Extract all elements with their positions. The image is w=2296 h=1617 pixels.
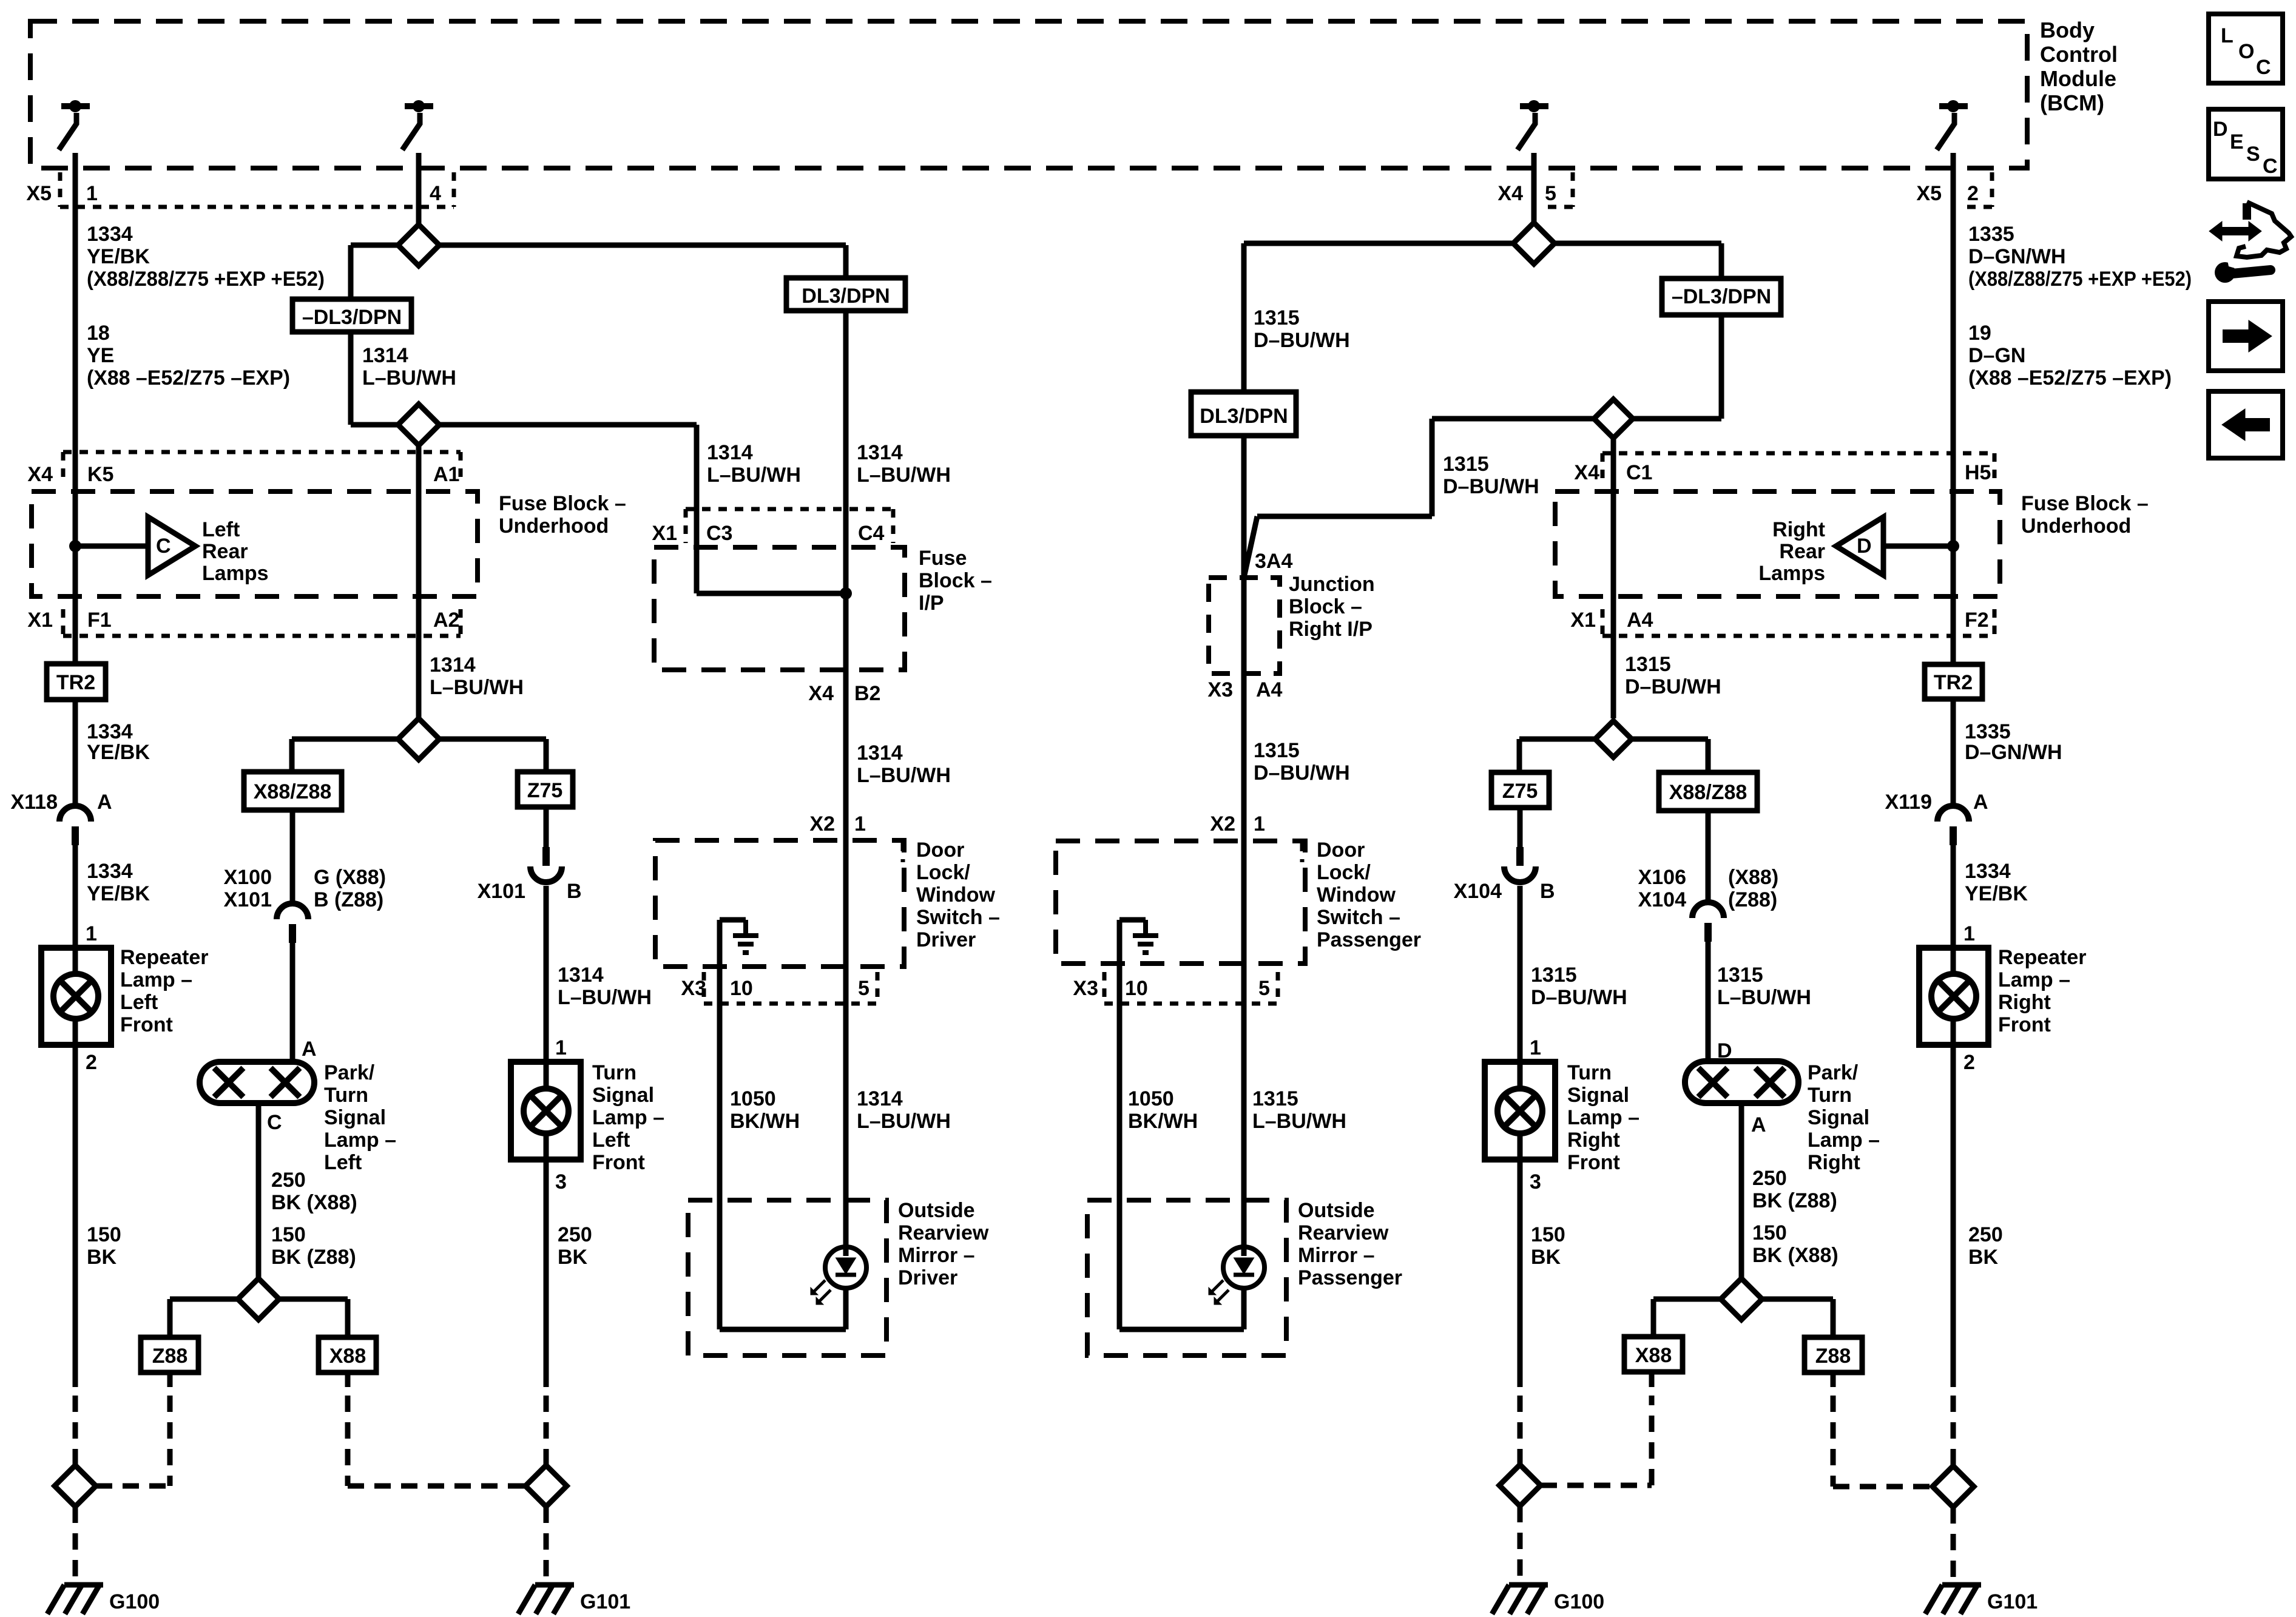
wire 250 BK from park/turn right — [1739, 1103, 1744, 1278]
svg-text:Body: Body — [2040, 18, 2095, 42]
svg-text:1050: 1050 — [1128, 1087, 1174, 1110]
pin 1 label — [86, 182, 98, 205]
svg-text:1315: 1315 — [1254, 306, 1300, 329]
svg-text:1335: 1335 — [1965, 720, 2011, 743]
splice diamond turn lamp right ground — [1499, 1465, 1541, 1506]
svg-text:D–BU/WH: D–BU/WH — [1254, 761, 1350, 785]
svg-text:A: A — [302, 1038, 317, 1061]
svg-text:Mirror –: Mirror – — [1298, 1244, 1375, 1267]
pin B label — [567, 880, 582, 903]
fuse block right connector X1 bracket (pins A4,F2) — [1602, 609, 1994, 636]
label X1 left fuse block — [27, 609, 53, 632]
svg-text:Outside: Outside — [1298, 1199, 1375, 1222]
wire label 1334 YE/BK (X88/Z88/Z75 +EXP +E52) — [87, 223, 325, 291]
svg-text:X106: X106 — [1638, 866, 1686, 889]
triangle letter D — [1857, 535, 1872, 558]
svg-text:Rear: Rear — [1779, 540, 1825, 563]
Outside Rearview Mirror - Driver label — [898, 1199, 989, 1289]
pin 1 label turn lamp right — [1530, 1036, 1541, 1059]
Right Rear Lamps label — [1758, 518, 1825, 585]
svg-text:D–BU/WH: D–BU/WH — [1625, 675, 1721, 698]
ground G100 right — [1492, 1585, 1548, 1614]
svg-text:Z75: Z75 — [527, 779, 563, 802]
wire label 1334 YE/BK below TR2 — [87, 720, 150, 764]
wire label 1315 L-BU/WH passenger mirror — [1252, 1087, 1346, 1133]
wire from X88/Z88 takeout to connector X100/X101 — [290, 810, 295, 903]
svg-text:Door: Door — [916, 839, 964, 862]
svg-text:B (Z88): B (Z88) — [314, 888, 383, 911]
svg-text:Z75: Z75 — [1502, 780, 1538, 803]
svg-text:X4: X4 — [808, 682, 834, 705]
svg-text:G100: G100 — [109, 1590, 160, 1613]
Fuse Block - Underhood left dashed box — [32, 491, 478, 596]
legend previous page arrow box — [2209, 391, 2283, 458]
dashed ground wire turn lamp left — [544, 1396, 549, 1465]
svg-text:Lock/: Lock/ — [1317, 861, 1371, 884]
svg-text:250: 250 — [1968, 1223, 2003, 1246]
label X5 — [26, 182, 52, 205]
wire 1315 to Park/Turn lamp right pin D — [1706, 941, 1711, 1061]
svg-text:G101: G101 — [1987, 1590, 2038, 1613]
wire 1314 from lower diamond to fuse block I/P pin C3 — [439, 425, 697, 593]
svg-text:D–GN/WH: D–GN/WH — [1968, 245, 2066, 268]
svg-text:X4: X4 — [27, 463, 53, 486]
label G (X88) B (Z88) — [314, 866, 386, 911]
svg-text:1314: 1314 — [558, 964, 604, 987]
Fuse Block - I/P label — [919, 547, 992, 615]
svg-text:X101: X101 — [224, 888, 272, 911]
svg-text:A4: A4 — [1256, 678, 1283, 701]
wire 1314 down from fuse block I/P pin B2 — [843, 593, 849, 840]
connector X3 bracket passenger — [1104, 972, 1278, 1004]
switch internal wire to ground passenger — [1119, 920, 1146, 964]
pin 5 label — [1545, 182, 1556, 205]
svg-text:H5: H5 — [1965, 461, 1991, 484]
svg-text:Lamp –: Lamp – — [324, 1129, 396, 1152]
svg-text:–DL3/DPN: –DL3/DPN — [302, 306, 402, 329]
wire 1334 YE/BK from BCM X5-1 — [73, 153, 78, 664]
svg-text:E: E — [2230, 130, 2244, 154]
svg-text:Repeater: Repeater — [1998, 946, 2087, 969]
svg-text:Front: Front — [120, 1013, 173, 1036]
turn signal LED indicator passenger mirror — [1209, 1247, 1264, 1305]
wire label 1314 L-BU/WH driver mirror — [857, 1087, 951, 1133]
pin 1 label repeater left — [86, 922, 97, 945]
wire label 1314 L-BU/WH on C3 branch — [707, 441, 801, 487]
Park/Turn Signal Lamp - Left (dual filament) — [200, 1062, 314, 1103]
option box DL3/DPN right-center — [1191, 392, 1296, 436]
label X106 X104 — [1638, 866, 1686, 911]
svg-text:F1: F1 — [87, 609, 112, 632]
svg-text:Repeater: Repeater — [120, 946, 209, 969]
internal ground symbol driver switch — [733, 920, 758, 953]
wire label 1314 L-BU/WH on C4 branch — [857, 441, 951, 487]
svg-text:C: C — [2263, 155, 2278, 178]
wire 250 BK below turn lamp left — [544, 1160, 549, 1387]
svg-text:(X88 –E52/Z75 –EXP): (X88 –E52/Z75 –EXP) — [1968, 366, 2172, 390]
label X5 right — [1916, 182, 1942, 205]
svg-text:L–BU/WH: L–BU/WH — [857, 764, 951, 787]
svg-text:Turn: Turn — [1808, 1084, 1852, 1107]
dashed wire below splice to G100 — [73, 1507, 78, 1578]
svg-text:X3: X3 — [1073, 977, 1098, 1000]
svg-text:1315: 1315 — [1252, 1087, 1298, 1110]
pin 4 label — [430, 182, 441, 205]
pin A1 label — [433, 463, 459, 486]
svg-text:X88/Z88: X88/Z88 — [254, 780, 332, 803]
svg-text:C4: C4 — [858, 522, 885, 545]
dashed wire to G101 left — [544, 1507, 549, 1578]
svg-text:–DL3/DPN: –DL3/DPN — [1672, 285, 1771, 308]
label X4 right fuse block — [1574, 461, 1599, 484]
wire from lower diamond to junction block jog — [1244, 419, 1594, 578]
svg-text:X1: X1 — [652, 522, 677, 545]
pin A label X119 — [1973, 791, 1988, 814]
wire label 18 YE (X88 -E52/Z75 -EXP) — [87, 322, 290, 390]
wire 1314 to Park/Turn lamp left pin A — [290, 943, 295, 1062]
svg-text:Block –: Block – — [1289, 595, 1362, 618]
splice diamond turn lamp left ground — [525, 1465, 567, 1507]
pin A label park/turn right — [1751, 1113, 1766, 1136]
wire 1315 from BCM X4-5 — [1531, 153, 1537, 223]
svg-text:2: 2 — [1963, 1051, 1975, 1074]
pin F1 label — [87, 609, 112, 632]
wire label 1315 L-BU/WH park/turn right — [1717, 964, 1811, 1009]
dashed wire Z88 right to repeater ground splice — [1833, 1372, 1933, 1487]
splice diamond 1314 to harness takeouts left — [398, 718, 439, 760]
wire 1050 BK/WH passenger — [1117, 964, 1123, 1200]
harness takeout X88/Z88 right — [1659, 772, 1757, 811]
mirror passenger internal wires — [1119, 1200, 1244, 1329]
connector X2 bracket driver — [901, 843, 905, 862]
harness takeout X88 left — [319, 1337, 376, 1372]
wire label 1050 BK/WH driver — [730, 1087, 800, 1133]
svg-text:1334: 1334 — [87, 223, 133, 246]
label G100 left — [109, 1590, 160, 1613]
svg-text:A4: A4 — [1627, 609, 1653, 632]
svg-text:Window: Window — [1317, 883, 1396, 906]
svg-text:BK/WH: BK/WH — [730, 1110, 800, 1133]
svg-text:Right: Right — [1567, 1129, 1620, 1152]
label X4 under fuse block I/P — [808, 682, 834, 705]
wire to X88/Z88 takeout right — [1632, 739, 1708, 772]
wire from Z75 right to connector X104 — [1518, 808, 1523, 847]
Park/Turn Signal Lamp - Right label — [1808, 1061, 1880, 1174]
svg-text:G (X88): G (X88) — [314, 866, 386, 889]
svg-text:X88: X88 — [1635, 1344, 1672, 1367]
svg-text:10: 10 — [730, 977, 753, 1000]
Fuse Block - Underhood right dashed box — [1555, 491, 2000, 596]
pin 2 label — [1967, 182, 1979, 205]
wire from splice to -DL3/DPN right — [1555, 243, 1721, 279]
svg-text:L–BU/WH: L–BU/WH — [430, 676, 524, 699]
dashed wire to G100 right — [1518, 1506, 1523, 1578]
svg-text:BK (X88): BK (X88) — [271, 1191, 357, 1214]
wire to Right Rear Lamps triangle — [1883, 544, 1953, 549]
label X119 — [1885, 791, 1932, 814]
svg-text:1: 1 — [86, 182, 98, 205]
svg-text:1050: 1050 — [730, 1087, 776, 1110]
Turn Signal Lamp - Right Front — [1485, 1062, 1555, 1160]
Turn Signal Lamp - Left Front — [511, 1062, 581, 1160]
Door Lock/Window Switch - Driver label — [916, 839, 1000, 951]
svg-text:250: 250 — [271, 1169, 306, 1192]
svg-text:1334: 1334 — [1965, 860, 2011, 883]
svg-text:X2: X2 — [1210, 812, 1235, 836]
fuse TR2 on wire 1334 — [47, 664, 106, 700]
wire label 250 BK right — [1968, 1223, 2003, 1269]
wire 1314 through driver switch — [843, 840, 849, 967]
svg-text:D–BU/WH: D–BU/WH — [1254, 329, 1350, 352]
svg-text:5: 5 — [858, 977, 869, 1000]
junction node on wire 1334 in fuse block — [69, 540, 81, 552]
svg-text:1: 1 — [555, 1036, 567, 1059]
harness takeout X88/Z88 left — [244, 772, 342, 810]
in-line connector X101 pin B — [530, 847, 562, 882]
pin 5 label passenger — [1258, 977, 1270, 1000]
wire from X88/Z88 right to connector X106/X104 — [1706, 811, 1711, 902]
svg-text:Park/: Park/ — [1808, 1061, 1859, 1084]
splice diamond 1315 upper — [1513, 223, 1555, 264]
svg-text:Underhood: Underhood — [499, 515, 609, 538]
wire below DL3/DPN to junction block — [1241, 436, 1247, 578]
wire label 1315 D-BU/WH upper — [1254, 306, 1350, 352]
wire label 150 BK turn right — [1531, 1223, 1565, 1269]
wire label 1335 D-GN/WH below TR2 — [1965, 720, 2062, 764]
svg-text:1314: 1314 — [857, 441, 903, 464]
wire label 1315 D-BU/WH below junction block — [1254, 739, 1350, 785]
svg-text:3: 3 — [1530, 1170, 1541, 1193]
svg-text:X118: X118 — [10, 791, 58, 814]
svg-text:Switch –: Switch – — [916, 906, 1000, 929]
pin 5 label driver — [858, 977, 869, 1000]
fuse block I/P connector X1 bracket (pins C3,C4) — [686, 509, 893, 543]
wire to Z75 takeout right — [1519, 739, 1595, 772]
connector X3 bracket driver — [704, 972, 877, 1004]
Left Rear Lamps label — [202, 518, 269, 585]
svg-text:X1: X1 — [27, 609, 53, 632]
svg-text:1335: 1335 — [1968, 223, 2014, 246]
in-line connector X106/X104 pin D — [1692, 902, 1724, 942]
Fuse Block - Underhood right label — [2021, 492, 2149, 538]
svg-text:Lock/: Lock/ — [916, 861, 970, 884]
wire into splice diamond 1315 lower — [1633, 416, 1721, 422]
pin A2 label — [433, 609, 459, 632]
svg-text:1314: 1314 — [857, 1087, 903, 1110]
svg-text:Signal: Signal — [592, 1084, 654, 1107]
Repeater Lamp - Left Front — [41, 948, 111, 1045]
wire label 250 BK (X88) — [271, 1169, 357, 1214]
svg-text:DL3/DPN: DL3/DPN — [802, 285, 890, 308]
svg-text:BK: BK — [558, 1246, 588, 1269]
svg-text:C: C — [2256, 56, 2271, 79]
svg-text:Driver: Driver — [898, 1266, 957, 1289]
BCM internal switch S2 at x=690 — [402, 100, 433, 150]
label X2 driver switch — [809, 812, 835, 836]
svg-text:1: 1 — [1530, 1036, 1541, 1059]
svg-text:19: 19 — [1968, 322, 1991, 345]
pin F2 label — [1965, 609, 1989, 632]
svg-text:D–GN/WH: D–GN/WH — [1965, 741, 2062, 764]
svg-text:X3: X3 — [1207, 678, 1233, 701]
svg-text:3A4: 3A4 — [1255, 550, 1292, 573]
mirror driver internal wires — [720, 1200, 846, 1329]
pin 10 label driver — [730, 977, 753, 1000]
Repeater Lamp - Left Front label — [120, 946, 209, 1036]
harness takeout Z75 left — [518, 772, 573, 807]
wire 1315 through passenger switch — [1241, 841, 1247, 964]
svg-text:Control: Control — [2040, 42, 2118, 67]
Body Control Module (BCM) dashed box — [30, 21, 2027, 168]
Fuse Block - Underhood left label — [499, 492, 626, 538]
svg-text:L–BU/WH: L–BU/WH — [857, 1110, 951, 1133]
dashed wire to G100 left — [73, 1396, 78, 1465]
svg-text:Front: Front — [1998, 1013, 2051, 1036]
svg-text:150: 150 — [271, 1223, 306, 1246]
svg-text:Left: Left — [202, 518, 240, 541]
label X101 — [478, 880, 525, 903]
internal ground symbol passenger switch — [1133, 920, 1158, 953]
wire label 1314 L-BU/WH below B2 — [857, 741, 951, 787]
dashed wire Z88 to left ground splice — [167, 1372, 173, 1486]
turn signal LED indicator driver mirror — [811, 1247, 866, 1305]
label X4 left fuse block — [27, 463, 53, 486]
wire label 1050 BK/WH passenger — [1128, 1087, 1198, 1133]
svg-text:150: 150 — [1531, 1223, 1565, 1246]
Junction Block - Right I/P dashed box — [1209, 578, 1280, 673]
Junction Block - Right I/P label — [1289, 573, 1375, 641]
pin B label right — [1540, 880, 1555, 903]
wire label 250 BK turn left — [558, 1223, 592, 1269]
wire label 1315 D-BU/WH mid — [1443, 453, 1539, 498]
svg-text:Underhood: Underhood — [2021, 515, 2131, 538]
label X2 passenger switch — [1210, 812, 1235, 836]
wire to X88 takeout right — [1653, 1299, 1721, 1337]
label X118 — [10, 791, 58, 814]
svg-text:Module: Module — [2040, 66, 2116, 91]
svg-text:Right: Right — [1772, 518, 1825, 541]
wire 150 BK repeater left — [73, 1045, 78, 1387]
svg-text:G100: G100 — [1554, 1590, 1604, 1613]
junction node inside fuse block I/P — [840, 587, 852, 599]
wire label 1334 YE/BK below X118 — [87, 860, 150, 905]
svg-text:Outside: Outside — [898, 1199, 975, 1222]
svg-text:X3: X3 — [681, 977, 706, 1000]
svg-text:X4: X4 — [1574, 461, 1599, 484]
wire to -DL3/DPN option box — [351, 245, 398, 299]
wire label 1315 D-BU/WH below right fuse block — [1625, 653, 1721, 698]
svg-text:Front: Front — [1567, 1151, 1620, 1174]
pin 3 label turn lamp right — [1530, 1170, 1541, 1193]
Outside Rearview Mirror - Passenger dashed box — [1087, 1200, 1286, 1355]
svg-text:1334: 1334 — [87, 720, 133, 743]
svg-text:1: 1 — [854, 812, 866, 836]
wire to X88 takeout left — [279, 1299, 348, 1337]
svg-text:Right: Right — [1998, 991, 2051, 1014]
svg-text:Switch –: Switch – — [1317, 906, 1400, 929]
svg-text:Rearview: Rearview — [1298, 1221, 1389, 1244]
connector X5 bracket right (pin 2) — [1960, 172, 1992, 207]
wire 1335 from BCM X5-2 — [1951, 153, 1956, 664]
svg-text:Z88: Z88 — [1815, 1345, 1851, 1368]
svg-text:B: B — [567, 880, 582, 903]
svg-text:Lamp –: Lamp – — [592, 1106, 664, 1129]
svg-text:X5: X5 — [1916, 182, 1942, 205]
switch internal wire to ground driver — [720, 920, 746, 967]
splice diamond park/turn right ground — [1721, 1278, 1762, 1320]
svg-text:L–BU/WH: L–BU/WH — [1717, 986, 1811, 1009]
svg-text:1334: 1334 — [87, 860, 133, 883]
svg-text:Driver: Driver — [916, 928, 976, 951]
svg-text:Signal: Signal — [1808, 1106, 1869, 1129]
svg-text:DL3/DPN: DL3/DPN — [1200, 405, 1288, 428]
svg-text:1: 1 — [1254, 812, 1265, 836]
dashed wire splice to X88 right takeout — [1541, 1372, 1652, 1485]
svg-text:Mirror –: Mirror – — [898, 1244, 975, 1267]
svg-text:(X88 –E52/Z75 –EXP): (X88 –E52/Z75 –EXP) — [87, 366, 290, 390]
wire label 1334 YE/BK right repeater — [1965, 860, 2028, 905]
Turn Signal Lamp - Left Front label — [592, 1061, 664, 1174]
svg-text:YE: YE — [87, 344, 114, 367]
svg-text:C3: C3 — [706, 522, 732, 545]
wire joining C3 to C4 inside fuse block I/P — [697, 591, 846, 596]
pin C1 label — [1626, 461, 1652, 484]
label G101 left — [580, 1590, 630, 1613]
Outside Rearview Mirror - Passenger label — [1298, 1199, 1402, 1289]
svg-text:Block –: Block – — [919, 569, 992, 592]
splice diamond on left ground wire — [55, 1465, 96, 1507]
splice diamond 1315 to harness takeouts right — [1595, 721, 1632, 757]
svg-text:Fuse Block –: Fuse Block – — [2021, 492, 2149, 515]
svg-text:Left: Left — [120, 991, 158, 1014]
connector X5 bracket (pins 1,4) — [60, 172, 454, 207]
svg-text:A2: A2 — [433, 609, 459, 632]
svg-text:3: 3 — [555, 1170, 567, 1193]
wire label 1314 L-BU/WH below fuse block left — [430, 653, 524, 699]
svg-text:G101: G101 — [580, 1590, 630, 1613]
svg-text:L–BU/WH: L–BU/WH — [707, 464, 801, 487]
dashed wire below splice to G101 — [1951, 1507, 1956, 1578]
svg-text:Signal: Signal — [324, 1106, 386, 1129]
label X3 driver — [681, 977, 706, 1000]
fuse TR2 on wire 1335 — [1925, 664, 1982, 699]
in-line connector X104 pin B — [1504, 847, 1536, 882]
svg-text:Passenger: Passenger — [1298, 1266, 1402, 1289]
harness takeout Z88 right — [1805, 1337, 1862, 1372]
svg-text:BK: BK — [87, 1246, 117, 1269]
svg-text:1: 1 — [86, 922, 97, 945]
wire 1334 below X118 — [73, 845, 78, 948]
Park/Turn Signal Lamp - Right (dual filament) — [1685, 1061, 1798, 1103]
pin 2 label repeater left — [86, 1051, 97, 1074]
svg-text:BK: BK — [1531, 1246, 1561, 1269]
svg-text:YE/BK: YE/BK — [87, 882, 150, 905]
BCM internal switch S3 at x=2528 — [1518, 100, 1548, 150]
svg-text:B2: B2 — [854, 682, 880, 705]
Outside Rearview Mirror - Driver dashed box — [688, 1200, 886, 1355]
pin 2 label repeater right — [1963, 1051, 1975, 1074]
svg-text:1314: 1314 — [707, 441, 753, 464]
svg-text:1314: 1314 — [857, 741, 903, 765]
label G101 right — [1987, 1590, 2038, 1613]
svg-text:2: 2 — [86, 1051, 97, 1074]
pin A4 label right fuse block — [1627, 609, 1653, 632]
junction node on wire 1335 in right fuse block — [1947, 540, 1959, 552]
wire label 1314 L-BU/WH below -DL3/DPN — [362, 344, 456, 390]
svg-text:Left: Left — [324, 1151, 362, 1174]
pin 3A4 label junction block — [1255, 550, 1292, 573]
dashed wire splice to Z88 takeout — [96, 1484, 170, 1489]
